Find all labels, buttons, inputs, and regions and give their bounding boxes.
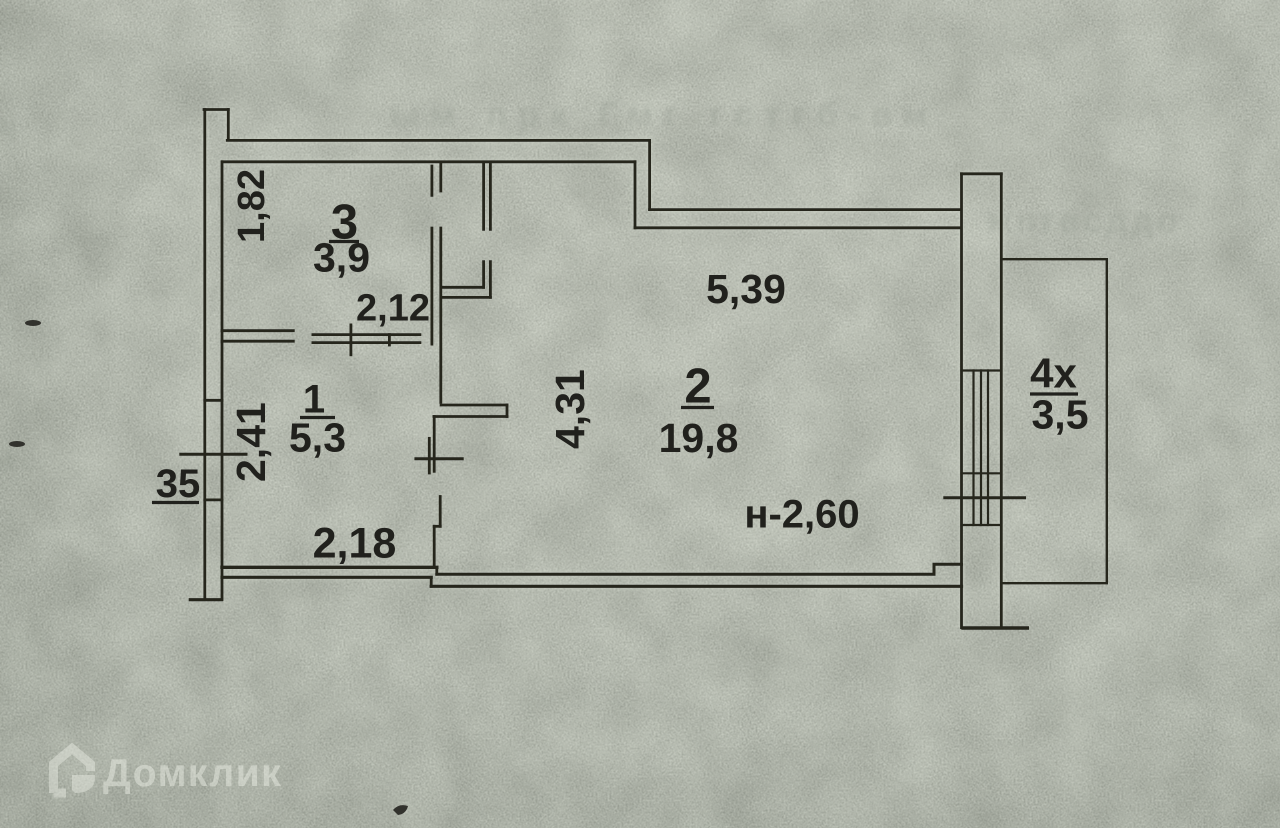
svg-text:3,5: 3,5 — [1032, 392, 1089, 438]
svg-text:2: 2 — [684, 360, 711, 414]
svg-text:1,82: 1,82 — [231, 169, 273, 243]
svg-text:м: м — [0, 444, 14, 477]
svg-text:зј: зј — [0, 109, 17, 142]
svg-text:Домклик: Домклик — [103, 752, 282, 795]
svg-text:5,3: 5,3 — [289, 415, 346, 461]
svg-text:35: 35 — [156, 462, 201, 506]
svg-text:4,31: 4,31 — [547, 369, 593, 449]
svg-text:н-2,60: н-2,60 — [744, 493, 859, 537]
svg-text:ым прк Гмг гстгб-вм: ым прк Гмг гстгб-вм — [390, 96, 939, 134]
svg-text:4х: 4х — [1030, 350, 1077, 397]
svg-text:2,12: 2,12 — [356, 288, 430, 330]
svg-text:2,41: 2,41 — [228, 402, 274, 482]
svg-text:3,9: 3,9 — [313, 235, 370, 281]
svg-text:2,18: 2,18 — [313, 520, 397, 568]
svg-text:5,39: 5,39 — [706, 266, 786, 312]
svg-text:19,8: 19,8 — [659, 415, 739, 461]
svg-text:жпгвсддо: жпгвсддо — [987, 202, 1182, 240]
